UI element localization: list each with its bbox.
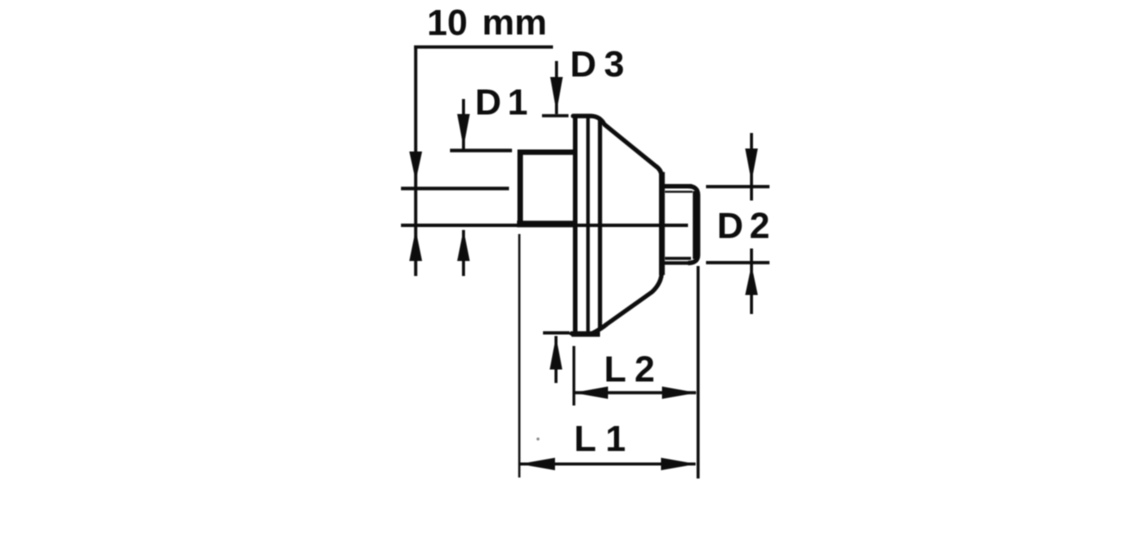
svg-text:2: 2 [750, 205, 770, 246]
svg-text:1: 1 [606, 418, 626, 459]
svg-text:1: 1 [508, 82, 528, 123]
svg-text:2: 2 [635, 348, 655, 389]
svg-text:mm: mm [482, 1, 547, 42]
svg-text:L: L [604, 348, 626, 389]
svg-text:3: 3 [604, 44, 624, 85]
svg-text:D: D [475, 82, 501, 123]
svg-text:D: D [717, 205, 743, 246]
svg-text:10: 10 [427, 2, 468, 43]
svg-text:L: L [574, 418, 596, 459]
svg-text:D: D [570, 44, 596, 85]
